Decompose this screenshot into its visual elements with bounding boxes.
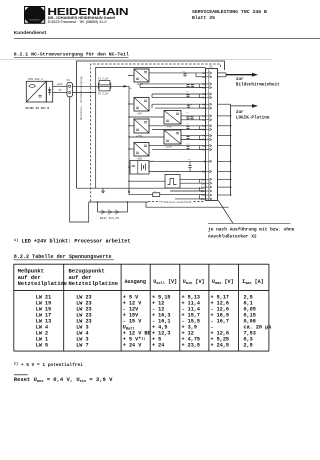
svg-text:Platinen-Anschluß.: Platinen-Anschluß.	[162, 200, 193, 204]
svg-text:X1: X1	[67, 79, 71, 82]
svg-text:SERVICEANLEITUNG TNC 246 B: SERVICEANLEITUNG TNC 246 B	[192, 9, 267, 15]
svg-text:Netzteil, Stromversorgung: Netzteil, Stromversorgung	[79, 76, 83, 120]
svg-text:+ 24,5: + 24,5	[211, 343, 230, 349]
svg-text:Imax [A]: Imax [A]	[242, 279, 264, 286]
svg-text:+: +	[191, 103, 193, 106]
svg-text:+5V: +5V	[137, 113, 142, 116]
svg-text:F1 2,5A: F1 2,5A	[98, 78, 109, 81]
svg-text:zur: zur	[236, 77, 244, 82]
svg-text:+15V: +15V	[136, 135, 143, 138]
svg-text:0V: 0V	[59, 89, 63, 92]
svg-text:22µ: 22µ	[186, 111, 189, 114]
svg-text:Netzteilplatine: Netzteilplatine	[69, 280, 119, 287]
svg-text:Bildschirmeinheit: Bildschirmeinheit	[236, 83, 280, 88]
svg-text:4µ7: 4µ7	[188, 158, 191, 161]
svg-text:1) + 5 V = 1 potentialfrei: 1) + 5 V = 1 potentialfrei	[14, 362, 83, 368]
svg-text:Reset Uaus = 0,4 V, Uein = 3,: Reset Uaus = 0,4 V, Uein = 3,9 V	[14, 376, 113, 384]
svg-text:zur: zur	[236, 110, 244, 115]
svg-text:je nach Ausführung mit bzw. oh: je nach Ausführung mit bzw. ohne	[208, 226, 295, 232]
svg-text:8.2.1 NC-Stromversorgung für d: 8.2.1 NC-Stromversorgung für den NC-Teil	[14, 52, 129, 58]
svg-text:-15V: -15V	[136, 157, 143, 160]
svg-text:22µ: 22µ	[182, 70, 185, 73]
svg-text:Netzteilplatine: Netzteilplatine	[18, 280, 68, 287]
svg-text:Umin [V]: Umin [V]	[183, 279, 205, 286]
svg-text:12a: 12a	[201, 186, 206, 189]
svg-text:X2: X2	[209, 65, 213, 68]
svg-text:10µ: 10µ	[186, 143, 189, 146]
svg-text:LW 5: LW 5	[36, 343, 48, 349]
svg-text:10µ: 10µ	[186, 90, 189, 93]
svg-text:AC/DC 42 407 W: AC/DC 42 407 W	[26, 106, 50, 110]
svg-text:Ausgang: Ausgang	[125, 279, 146, 285]
svg-text:USS 380 V: USS 380 V	[28, 78, 43, 81]
svg-text:Umax [V]: Umax [V]	[212, 279, 234, 286]
svg-text:+: +	[130, 88, 133, 92]
svg-text:Usoll [V]: Usoll [V]	[153, 279, 177, 286]
svg-text:8.2.2 Tabelle der Spannungswer: 8.2.2 Tabelle der Spannungswerte	[14, 254, 112, 260]
svg-text:±15V: ±15V	[166, 146, 173, 149]
svg-text:+ 24: + 24	[152, 343, 164, 349]
svg-text:47µ: 47µ	[186, 123, 189, 126]
svg-text:Batt 3x1,5V: Batt 3x1,5V	[100, 217, 119, 220]
svg-text:LW 7: LW 7	[76, 343, 88, 349]
svg-text:LOGIK-Platine: LOGIK-Platine	[236, 116, 270, 121]
svg-text:Kundendienst: Kundendienst	[14, 30, 47, 36]
svg-text:11a: 11a	[201, 178, 206, 181]
svg-text:F2 2,5A: F2 2,5A	[98, 92, 109, 95]
svg-text:Anschlußstecker X2: Anschlußstecker X2	[208, 234, 257, 240]
svg-text:+ 23,5: + 23,5	[182, 343, 201, 349]
svg-text:+24V: +24V	[57, 83, 64, 86]
svg-text:+ 24 V: + 24 V	[123, 343, 142, 349]
svg-text:Blatt 25: Blatt 25	[192, 15, 215, 21]
svg-text:12b: 12b	[201, 190, 206, 193]
svg-text:13b: 13b	[201, 198, 206, 201]
svg-text:1) LED +24V blinkt: Processor: 1) LED +24V blinkt: Processor arbeitet	[14, 238, 131, 244]
svg-text:11b: 11b	[201, 182, 206, 185]
svg-text:D-8225 Traunreut · Tel. (08669: D-8225 Traunreut · Tel. (08669) 31-0	[48, 20, 107, 24]
svg-text:+: +	[190, 83, 192, 86]
svg-text:2,5: 2,5	[244, 343, 253, 349]
